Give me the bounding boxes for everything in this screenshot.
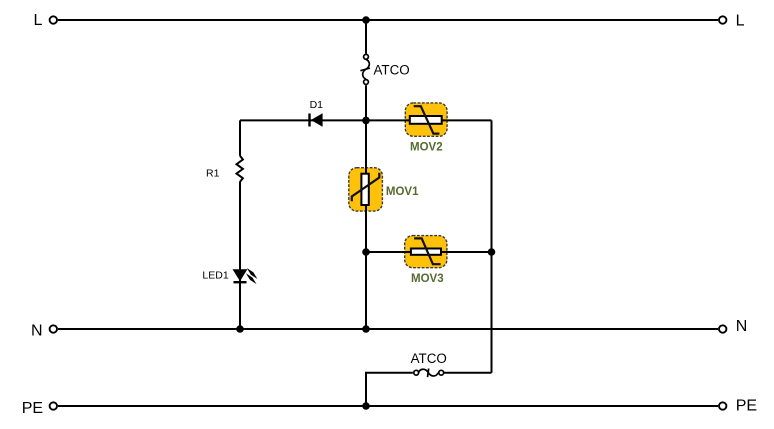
svg-text:ATCO: ATCO	[374, 63, 410, 78]
svg-text:MOV2: MOV2	[410, 141, 443, 153]
svg-text:N: N	[31, 322, 43, 339]
svg-text:PE: PE	[736, 397, 757, 414]
svg-text:PE: PE	[22, 400, 43, 417]
svg-text:D1: D1	[310, 99, 324, 111]
svg-text:N: N	[736, 318, 748, 335]
svg-text:LED1: LED1	[202, 270, 228, 282]
svg-text:ATCO: ATCO	[411, 351, 447, 366]
svg-text:R1: R1	[206, 167, 220, 179]
svg-text:MOV1: MOV1	[386, 186, 419, 198]
svg-text:L: L	[34, 12, 43, 29]
svg-text:MOV3: MOV3	[411, 273, 444, 285]
svg-text:L: L	[736, 12, 745, 29]
